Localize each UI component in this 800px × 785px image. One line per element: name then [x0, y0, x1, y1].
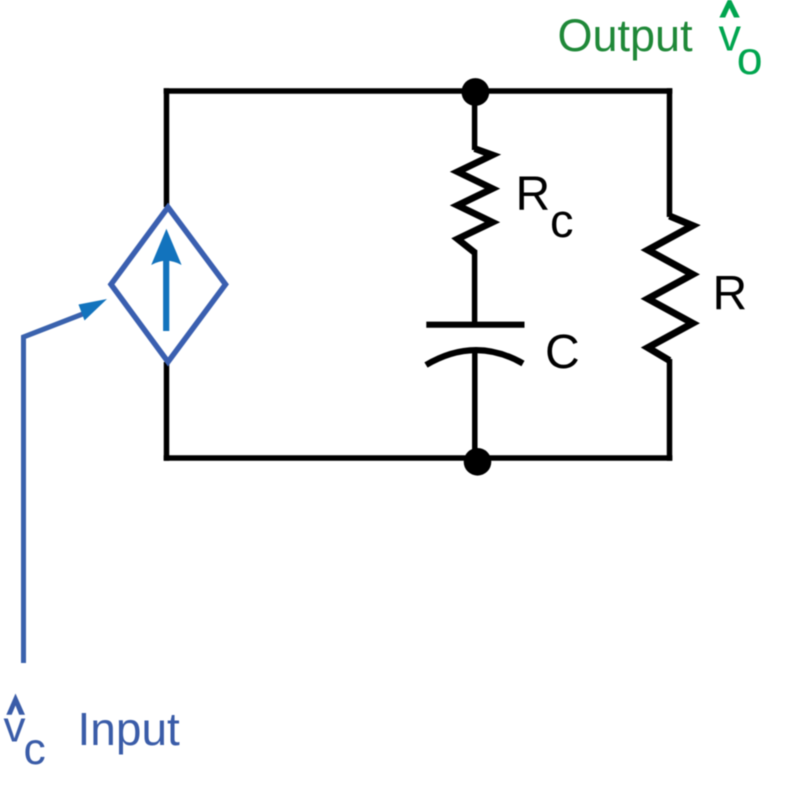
svg-text:R: R: [516, 168, 551, 221]
capacitor C bottom curved plate: [426, 350, 523, 365]
svg-text:Output: Output: [558, 10, 694, 61]
input pointer wire: [24, 314, 85, 664]
label vc caret: [6, 694, 25, 715]
input pointer arrowhead: [79, 299, 108, 321]
resistor R: [648, 216, 693, 361]
wire top rail: [164, 88, 673, 94]
wire right bottom segment: [667, 359, 673, 461]
wire middle between Rc and C: [472, 250, 478, 325]
current source arrow shaft: [163, 259, 169, 331]
svg-text:o: o: [737, 32, 763, 84]
svg-text:c: c: [24, 725, 46, 774]
wire left bottom segment: [164, 362, 170, 461]
wire left top segment: [164, 88, 170, 207]
svg-text:R: R: [713, 268, 748, 321]
current source arrowhead: [151, 229, 181, 265]
svg-text:Input: Input: [78, 703, 181, 755]
wire middle bottom segment: [472, 349, 478, 461]
resistor Rc: [458, 149, 493, 253]
svg-text:C: C: [545, 326, 580, 379]
controlled current source U1 diamond: [111, 207, 226, 362]
svg-text:v: v: [4, 703, 26, 752]
node output dot top: [462, 78, 490, 106]
wire middle top segment: [472, 91, 478, 150]
wire bottom rail: [164, 455, 673, 461]
node bottom dot: [464, 448, 492, 476]
svg-text:c: c: [550, 194, 574, 247]
wire right top segment: [667, 88, 673, 217]
capacitor C top plate: [426, 322, 524, 328]
label vo caret: [719, 0, 739, 18]
